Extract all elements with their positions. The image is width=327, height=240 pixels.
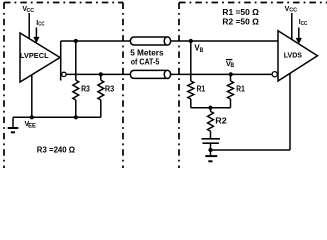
svg-text:R3 =240 Ω: R3 =240 Ω: [37, 146, 76, 155]
svg-text:R2: R2: [215, 117, 227, 126]
svg-text:CC: CC: [38, 22, 45, 28]
svg-text:CC: CC: [27, 8, 35, 14]
svg-text:CC: CC: [301, 21, 308, 27]
svg-text:LVDS: LVDS: [284, 50, 302, 59]
svg-text:B: B: [200, 47, 204, 54]
svg-text:R1 =50 Ω: R1 =50 Ω: [222, 8, 259, 17]
svg-text:CC: CC: [289, 8, 298, 14]
svg-text:R3: R3: [81, 84, 90, 93]
svg-text:R1: R1: [197, 85, 206, 94]
svg-text:LVPECL: LVPECL: [20, 51, 49, 60]
svg-text:R1: R1: [236, 85, 245, 94]
svg-text:R3: R3: [105, 84, 115, 93]
svg-text:R2 =50 Ω: R2 =50 Ω: [222, 18, 259, 27]
svg-text:of CAT-5: of CAT-5: [131, 56, 160, 66]
svg-text:EE: EE: [28, 124, 36, 130]
svg-text:B: B: [231, 63, 235, 69]
